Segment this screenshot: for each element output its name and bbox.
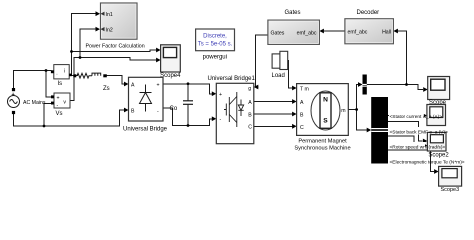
arrowheads [96, 11, 439, 174]
svg-text:Decoder: Decoder [357, 10, 380, 16]
wire Vs plus tap [46, 71, 52, 98]
wire capacitor top lead [187, 84, 189, 101]
Scope (hall) [428, 77, 450, 100]
svg-text:Scope3: Scope3 [440, 187, 459, 192]
wire PMSM m to hall selector [348, 85, 358, 110]
svg-text:S: S [323, 118, 328, 125]
wire stator current to Scope1 [388, 115, 422, 117]
signal label stator back EMF [389, 127, 448, 136]
wire capacitor bottom lead [187, 105, 189, 126]
svg-text:AC Mains: AC Mains [23, 100, 46, 106]
signal label rotor speed [389, 142, 445, 151]
svg-text:+: + [157, 82, 160, 88]
svg-text:A: A [131, 82, 135, 88]
wire PMSM m to bus selector [357, 110, 367, 131]
Load step block [272, 51, 288, 69]
svg-text:+: + [57, 96, 60, 102]
wire A Is signal to Scope4 input 1 [72, 50, 157, 52]
svg-text:g: g [248, 86, 251, 92]
hall selector block [363, 75, 367, 95]
wire Vs signal riser [70, 58, 80, 101]
svg-text:-: - [157, 108, 159, 114]
svg-text:C: C [300, 125, 304, 131]
svg-text:Synchronous Machine: Synchronous Machine [294, 145, 350, 151]
svg-text:Discrete,: Discrete, [203, 33, 227, 39]
wire bottom rail AC to bridge B [14, 110, 125, 126]
Gates subsystem [268, 20, 320, 44]
current measurement Is [51, 65, 76, 79]
svg-text:Load: Load [272, 73, 285, 79]
wire inverter A to PMSM A [254, 101, 293, 103]
wire hall branch to Decoder Hall input [398, 31, 407, 85]
Scope4 [161, 45, 181, 72]
impedance Zs resistor [77, 73, 92, 78]
wire AC top to Is [14, 71, 52, 89]
svg-text:m: m [341, 108, 345, 114]
Decoder subsystem [345, 19, 394, 44]
wire Zs to bridge A [107, 76, 125, 84]
svg-text:<Electromagnetic torque Te (N*: <Electromagnetic torque Te (N*m)> [390, 160, 465, 166]
wire rotor speed to Scope2 [388, 136, 422, 146]
svg-text:Gates: Gates [271, 30, 285, 36]
rectifier Universal Bridge [129, 77, 164, 121]
wire inverter C to PMSM C [254, 125, 293, 127]
svg-text:powergui: powergui [203, 54, 227, 60]
motor PMSM [297, 84, 349, 136]
IGBT with diode icon [224, 92, 244, 127]
svg-text:.: . [56, 71, 57, 77]
svg-text:B: B [248, 112, 252, 118]
svg-text:<Stator current is_a (A)>: <Stator current is_a (A)> [390, 114, 443, 120]
Scope2 [427, 132, 446, 151]
Scope1 current [427, 105, 446, 126]
svg-text:B: B [300, 113, 304, 119]
wire hall selector to Scope [367, 85, 423, 90]
svg-text:+: + [219, 92, 222, 98]
svg-text:C: C [248, 125, 252, 131]
svg-text:Hall: Hall [382, 29, 391, 35]
svg-text:Is: Is [58, 81, 63, 87]
signal label electromagnetic torque [389, 157, 465, 166]
svg-text:In2: In2 [106, 27, 113, 33]
wire inverter B to PMSM B [254, 113, 293, 115]
svg-text:-: - [57, 102, 59, 108]
inverter Universal Bridge1 [216, 83, 254, 143]
svg-text:Power Factor Calculation: Power Factor Calculation [86, 43, 145, 49]
wire stator back EMF to Scope2 [388, 122, 422, 142]
voltage measurement Vs [51, 93, 70, 108]
svg-text:Zs: Zs [103, 86, 110, 92]
signal label stator current [389, 112, 442, 121]
wire Is output riser to In1 [72, 14, 96, 75]
svg-text:Universal Bridge1: Universal Bridge1 [208, 76, 256, 82]
Power Factor Calculation subsystem [101, 3, 138, 39]
svg-text:Permanent Magnet: Permanent Magnet [298, 138, 347, 144]
wire Vs signal to In2 [80, 29, 96, 57]
powergui block [196, 29, 235, 51]
wire Is to Zs lead [71, 75, 78, 77]
svg-text:Vs: Vs [56, 111, 63, 117]
Scope3 [439, 166, 462, 186]
svg-text:v: v [63, 99, 66, 105]
wire Gates output to inverter gate g [256, 35, 268, 87]
svg-text:Co: Co [170, 106, 178, 112]
svg-text:A: A [248, 100, 252, 106]
capacitor Co [183, 101, 193, 105]
svg-text:emf_abc: emf_abc [348, 29, 368, 35]
svg-text:N: N [323, 97, 328, 104]
wire B Vs signal to Scope4 input 2 [80, 58, 157, 61]
svg-text:emf_abc: emf_abc [297, 30, 317, 36]
svg-text:In1: In1 [106, 12, 113, 18]
wire bridge minus to bottom dc rail [163, 108, 212, 126]
bus selector demux [371, 97, 388, 164]
diode D1 [140, 85, 152, 112]
svg-text:B: B [131, 108, 135, 114]
junction dots [43, 50, 408, 127]
svg-text:i: i [64, 68, 65, 74]
svg-text:-: - [220, 117, 222, 123]
svg-text:Scope2: Scope2 [428, 152, 449, 158]
wire Decoder to Gates [324, 30, 345, 32]
wire torque to Scope3 [388, 150, 434, 172]
svg-text:Gates: Gates [285, 10, 301, 16]
impedance Zs inductor [92, 73, 101, 76]
wire Vs minus to bottom rail [44, 104, 52, 127]
svg-text:T m: T m [300, 87, 309, 93]
svg-text:Ts = 5e-05 s.: Ts = 5e-05 s. [198, 41, 233, 47]
wire Load to PMSM Tm [288, 61, 293, 89]
svg-text:+: + [12, 92, 15, 98]
svg-text:<Stator back EMF e_a (V)>: <Stator back EMF e_a (V)> [390, 130, 449, 136]
svg-text:<Rotor speed wm (rad/s)>: <Rotor speed wm (rad/s)> [390, 145, 446, 151]
AC source V1 [8, 88, 20, 114]
wire bridge plus to inverter plus [163, 84, 212, 94]
svg-text:A: A [300, 100, 304, 106]
svg-text:Universal Bridge: Universal Bridge [123, 127, 168, 133]
